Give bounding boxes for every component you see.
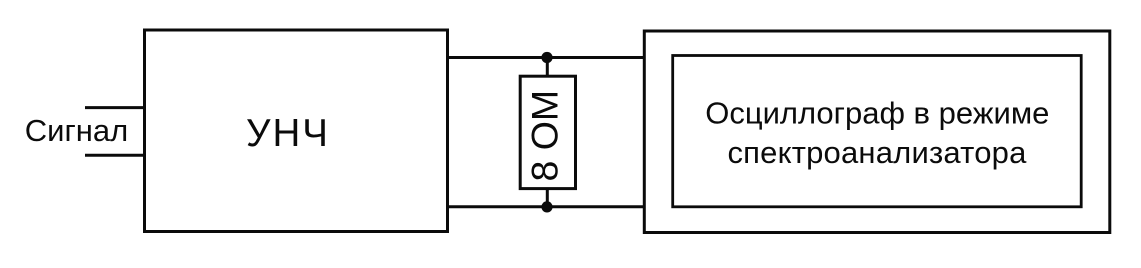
wire: input stub top (85, 106, 145, 109)
svg-text:Осциллограф в режиме: Осциллограф в режиме (705, 96, 1049, 131)
amplifier block U1 (УНЧ box) (145, 30, 448, 232)
resistor R1 body (8 Ом load) (520, 76, 575, 188)
wire: bottom output of УНЧ to oscilloscope (448, 205, 645, 208)
svg-text:Сигнал: Сигнал (25, 113, 128, 148)
svg-text:спектроанализатора: спектроанализатора (727, 135, 1027, 170)
wire: top output of УНЧ to oscilloscope (448, 56, 645, 59)
wire: resistor top lead (546, 58, 549, 77)
wire: resistor bottom lead (546, 189, 549, 207)
oscilloscope block outer frame (644, 31, 1110, 233)
junction node top (541, 52, 552, 63)
junction node bottom (541, 201, 552, 212)
oscilloscope block inner frame (673, 56, 1081, 207)
svg-text:УНЧ: УНЧ (246, 112, 330, 155)
wire: input stub bottom (85, 154, 145, 157)
svg-text:8 ОМ: 8 ОМ (524, 90, 566, 182)
